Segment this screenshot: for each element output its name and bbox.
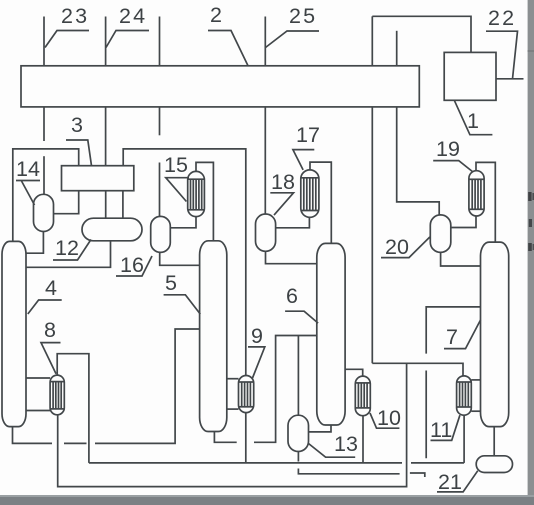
leader 20 <box>381 237 430 258</box>
wire condenser11 bottom <box>463 415 465 463</box>
wire rect3 to drum14 side <box>54 191 79 214</box>
wire column5 bottoms b to header <box>254 336 317 443</box>
wire stream 25 line <box>264 17 266 66</box>
wire column4 to reboiler8 upper <box>26 377 50 379</box>
wire long horizontal y463 right part <box>411 462 464 464</box>
wire condenser17 top to column6 <box>310 162 331 243</box>
wire stub x396 top <box>396 31 398 66</box>
drum 18 <box>256 214 276 251</box>
svg-text:22: 22 <box>488 6 516 30</box>
wire column7 to condenser11 upper <box>471 379 480 381</box>
wire stream line x159 <box>159 17 161 66</box>
drum 20 <box>430 215 451 253</box>
wire condenser9 bottom <box>245 413 247 464</box>
svg-text:9: 9 <box>251 324 263 348</box>
wire condenser15 bottom to drum16 <box>170 217 196 228</box>
wire condenser17 bottom to drum18 <box>276 217 310 228</box>
wire x426 lower <box>425 371 427 459</box>
wire column4 to reboiler8 lower <box>26 410 50 412</box>
wire header to vessel13 top <box>297 336 299 416</box>
leader 6 <box>285 311 318 323</box>
leader 8 <box>41 343 61 374</box>
wire reboiler8 bottom long line <box>58 363 407 486</box>
drum 16 <box>151 216 171 252</box>
wire long horizontal y463 left part <box>89 462 402 464</box>
leader 7 <box>444 320 481 349</box>
column 6 <box>317 243 345 425</box>
unit 3 box <box>62 166 134 191</box>
wire column4 bottoms dashed c to column5 <box>95 329 200 443</box>
wire top header horizontal <box>372 16 471 53</box>
svg-text:4: 4 <box>45 276 57 300</box>
sidebar divider <box>528 50 534 52</box>
leader 3 <box>66 140 92 166</box>
leader 13 <box>309 444 356 458</box>
leader 15 <box>166 178 189 202</box>
svg-text:1: 1 <box>467 109 479 133</box>
wire dash near 21 <box>410 473 425 477</box>
wire column5 to condenser9 lower <box>227 408 239 410</box>
drum 21 <box>476 456 512 473</box>
bottom grey bar <box>0 497 534 505</box>
wire condenser15 top to column5 <box>196 162 213 240</box>
wire column4 bottoms dashed b <box>64 442 87 444</box>
svg-text:24: 24 <box>119 4 147 28</box>
sidebar text fragment b <box>529 219 532 227</box>
wire condenser19 top to column7 <box>476 162 495 242</box>
svg-text:15: 15 <box>164 153 188 177</box>
leader 11 <box>431 415 460 440</box>
condenser 11 <box>457 376 472 415</box>
leader 17 <box>293 150 314 170</box>
leader 21 <box>437 471 478 492</box>
svg-text:3: 3 <box>71 113 83 137</box>
wire column5 to condenser9 upper <box>227 378 239 380</box>
wire left horizontal y149 <box>13 149 79 242</box>
wire condenser10 bottom <box>362 416 364 463</box>
condenser 10 <box>355 376 370 416</box>
wire column7 bottom to drum21 <box>493 427 495 456</box>
vessel 13 <box>288 415 309 451</box>
leader 9 <box>248 347 265 378</box>
wire x265 to drum18 <box>264 107 266 214</box>
condenser 17 <box>301 170 319 217</box>
leader 22 <box>486 31 518 79</box>
column 7 <box>481 242 509 427</box>
sidebar text fragment c <box>528 243 532 251</box>
svg-text:12: 12 <box>55 236 79 260</box>
svg-text:14: 14 <box>16 157 40 181</box>
svg-text:19: 19 <box>436 137 460 161</box>
leader 1 <box>454 100 492 134</box>
leader 5 <box>164 295 201 314</box>
leader 4 <box>28 300 62 314</box>
svg-text:13: 13 <box>334 432 358 456</box>
wire stream 23 line <box>43 17 45 66</box>
drum 12 <box>82 218 142 241</box>
svg-text:25: 25 <box>289 4 317 28</box>
wire column7 to condenser11 lower <box>471 410 480 412</box>
wire x159 to drum16 <box>159 163 161 217</box>
svg-text:18: 18 <box>271 170 295 194</box>
wire x105 to rect3 <box>105 107 107 166</box>
svg-text:23: 23 <box>61 4 89 28</box>
wire column6 bottom to vessel13 <box>309 425 332 432</box>
svg-text:16: 16 <box>120 253 144 277</box>
wire drum14 to column4 <box>26 232 43 254</box>
svg-text:2: 2 <box>210 3 222 27</box>
drum 14 <box>34 194 54 231</box>
leader 24 <box>106 31 149 48</box>
wire rect3 bottom x105 <box>105 191 107 219</box>
svg-text:21: 21 <box>438 470 462 494</box>
svg-text:8: 8 <box>44 318 56 342</box>
leader 16 <box>116 256 152 276</box>
wire x44 to drum14 <box>43 156 45 194</box>
wire drum16 to column5 <box>160 252 200 265</box>
wire column5 bottoms a <box>214 432 236 443</box>
column 4 <box>2 241 26 426</box>
sidebar text fragment a <box>528 192 531 201</box>
wire riser x372 long <box>371 107 373 363</box>
wire drum12 to column4 <box>26 241 111 267</box>
reboiler 8 <box>50 375 64 415</box>
wire vessel13 bottom below break <box>298 469 399 474</box>
wire x159 below header <box>159 107 161 135</box>
column 5 <box>200 241 227 432</box>
svg-text:10: 10 <box>377 406 401 430</box>
leader 18 <box>270 193 293 215</box>
svg-text:11: 11 <box>430 418 452 442</box>
wire riser x372 top <box>371 16 373 66</box>
wire column4 bottoms dashed a <box>13 427 53 444</box>
condenser 15 <box>188 171 205 216</box>
wire vessel13 bottom stub <box>297 452 299 462</box>
header 2 <box>21 66 419 107</box>
leader 14 <box>16 180 40 182</box>
wire drum18 to column6 <box>266 251 317 263</box>
svg-text:5: 5 <box>165 271 177 295</box>
condenser 19 <box>469 171 484 216</box>
wire x44 below header <box>43 107 45 141</box>
wire column6 to condenser10 top <box>345 369 363 376</box>
svg-text:6: 6 <box>286 284 298 308</box>
wire right horizontal y149 <box>123 149 246 376</box>
leader 23 <box>45 31 89 48</box>
svg-text:17: 17 <box>296 123 320 147</box>
leader 12 <box>53 240 91 261</box>
svg-text:7: 7 <box>446 325 458 349</box>
unit 1 box <box>444 52 496 100</box>
wire x396 to drum20 <box>397 107 440 215</box>
wire reboiler8 top loop down right <box>57 354 89 463</box>
leader 25 <box>266 31 320 48</box>
leader 10 <box>370 413 399 428</box>
wire rect3 bottom x122 <box>122 191 124 219</box>
wire stream 24 line <box>105 17 107 66</box>
svg-text:20: 20 <box>385 235 409 259</box>
wire drum20 to column7 <box>441 252 481 266</box>
condenser 9 <box>239 376 254 413</box>
leader 2 <box>208 31 248 66</box>
wire column7 side to x426 upper <box>426 307 480 354</box>
right grey sidebar <box>528 0 534 505</box>
wire riser to condenser11 top <box>372 363 463 376</box>
leader 19 <box>433 161 473 172</box>
wire condenser19 bottom to drum20 <box>451 216 476 228</box>
wire box1 right outlet <box>496 78 524 80</box>
